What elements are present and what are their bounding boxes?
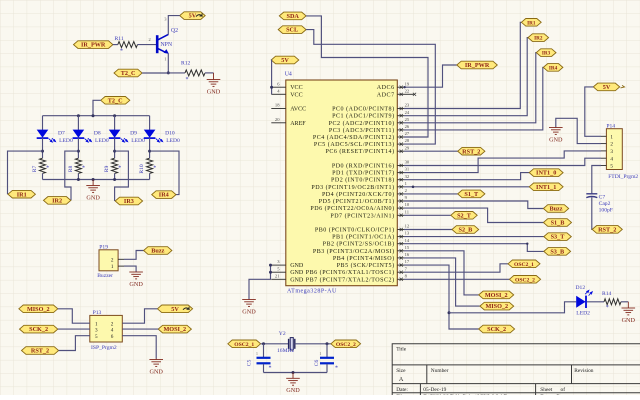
LED D7 bbox=[37, 130, 56, 143]
wire PC2 to IR3 bbox=[404, 53, 536, 123]
svg-text:INT1_1: INT1_1 bbox=[536, 184, 556, 191]
svg-text:R10: R10 bbox=[139, 164, 145, 174]
svg-text:OSC2_1: OSC2_1 bbox=[514, 262, 534, 268]
wire T2_C drop to rail bbox=[93, 100, 101, 115]
svg-text:2: 2 bbox=[610, 142, 613, 148]
svg-text:Size: Size bbox=[396, 368, 406, 374]
svg-text:AVCC: AVCC bbox=[290, 107, 306, 113]
junction S3_B corner bbox=[526, 243, 528, 245]
junction gnd bus 2 bbox=[269, 271, 272, 274]
wire PC3 to IR4 bbox=[404, 67, 543, 129]
svg-text:LED0: LED0 bbox=[59, 138, 73, 144]
wire C6 top bbox=[326, 344, 328, 357]
junction node D10 bbox=[148, 150, 151, 153]
wire 5V to P13.2 bbox=[122, 309, 157, 323]
pin 29 PC6 bbox=[325, 145, 409, 155]
connector P14 bbox=[606, 129, 622, 170]
svg-text:LED0: LED0 bbox=[166, 138, 180, 144]
junction PD3 node bbox=[412, 186, 415, 189]
svg-text:IR2: IR2 bbox=[52, 198, 62, 205]
svg-text:16: 16 bbox=[405, 252, 410, 257]
junction xtal right node bbox=[326, 342, 329, 345]
wire PC1 to IR2 bbox=[404, 38, 528, 116]
svg-text:RST_2: RST_2 bbox=[31, 348, 49, 355]
port Buzz (right) bbox=[543, 205, 568, 213]
wire LED bottom rail bbox=[43, 179, 150, 181]
svg-text:RST_2: RST_2 bbox=[462, 148, 480, 155]
ground GND at R14 bbox=[622, 302, 636, 315]
port SCL bbox=[278, 26, 306, 34]
svg-text:D10: D10 bbox=[165, 130, 175, 136]
port SCK_2 (right) bbox=[479, 325, 515, 333]
wire PC0 to IR1 bbox=[404, 22, 521, 108]
svg-text:ADC6: ADC6 bbox=[377, 85, 395, 91]
wire GND to P14.2 bbox=[556, 118, 601, 143]
wire SCK to LED D12 bbox=[449, 302, 576, 313]
svg-text:Sheet: Sheet bbox=[540, 387, 552, 393]
pin 9 PD5 bbox=[319, 195, 408, 205]
pin 28 PC5 bbox=[314, 138, 410, 148]
svg-text:GND: GND bbox=[290, 270, 304, 276]
svg-text:Date:: Date: bbox=[396, 387, 408, 393]
junction rail2-R8 bbox=[77, 178, 80, 181]
svg-text:17: 17 bbox=[405, 259, 410, 264]
svg-text:R12: R12 bbox=[181, 61, 191, 67]
port S2_B bbox=[452, 226, 479, 234]
svg-text:3: 3 bbox=[95, 328, 98, 334]
junction VCC node bbox=[270, 86, 273, 89]
wire PB7 to OSC2_2 bbox=[404, 278, 509, 280]
pin 22 ADC7 bbox=[377, 88, 410, 98]
wire Q2 emitter down bbox=[167, 54, 169, 73]
svg-text:4: 4 bbox=[610, 156, 613, 162]
pin 13 PB1 bbox=[332, 231, 410, 241]
svg-text:*: * bbox=[46, 165, 49, 171]
pin 27 PC4 bbox=[313, 131, 410, 141]
wire xtal gnd rail bbox=[264, 372, 328, 374]
wire PD1 to P14.3 bbox=[404, 151, 601, 173]
svg-text:Cap2: Cap2 bbox=[599, 201, 611, 207]
svg-text:P19: P19 bbox=[99, 244, 108, 250]
wire PD4 to S1_T bbox=[404, 193, 458, 195]
svg-text:1: 1 bbox=[610, 134, 613, 140]
svg-text:2: 2 bbox=[149, 37, 151, 42]
svg-text:C5: C5 bbox=[247, 360, 253, 367]
svg-text:25: 25 bbox=[405, 117, 410, 122]
wire PB2 to S3_B bbox=[404, 244, 544, 252]
svg-text:5V: 5V bbox=[171, 306, 179, 313]
port 5V (P13) bbox=[157, 305, 192, 313]
transistor Q2 bbox=[157, 34, 169, 54]
title block text bbox=[396, 347, 594, 400]
pin 11 PD7 bbox=[330, 209, 409, 219]
svg-text:100pF: 100pF bbox=[599, 208, 613, 214]
svg-text:2: 2 bbox=[111, 321, 114, 327]
no-connect stub ADC7 bbox=[404, 93, 414, 95]
pin 32 PD2 bbox=[331, 174, 410, 184]
port S1_B bbox=[543, 219, 571, 227]
wire 5V to P14.1 bbox=[585, 87, 601, 136]
svg-text:1: 1 bbox=[256, 352, 258, 356]
svg-text:D9: D9 bbox=[130, 130, 137, 136]
svg-text:IR_PWR: IR_PWR bbox=[465, 62, 490, 69]
junction rail-D8 bbox=[77, 114, 80, 117]
port MISO_2 (left) bbox=[19, 305, 58, 313]
junction xtal left node bbox=[262, 342, 265, 345]
svg-text:5: 5 bbox=[610, 164, 613, 170]
svg-text:PC1 (ADC1/PCINT9): PC1 (ADC1/PCINT9) bbox=[332, 113, 394, 120]
svg-text:R9: R9 bbox=[104, 166, 110, 173]
ground GND at R12 bbox=[207, 73, 221, 87]
pin 24 PC1 bbox=[332, 110, 410, 120]
pin 6 VCC (left) bbox=[271, 81, 302, 91]
junction rail2-GND bbox=[92, 178, 95, 181]
svg-text:11: 11 bbox=[405, 209, 410, 214]
port Buzz (left) bbox=[144, 247, 172, 255]
svg-text:Number: Number bbox=[431, 368, 449, 374]
svg-text:*: * bbox=[118, 165, 121, 171]
svg-text:OSC2_1: OSC2_1 bbox=[234, 342, 254, 348]
junction rail-D9 bbox=[113, 114, 116, 117]
svg-text:2: 2 bbox=[111, 257, 114, 263]
svg-text:*: * bbox=[153, 165, 156, 171]
svg-text:D8: D8 bbox=[94, 130, 101, 136]
svg-text:GND: GND bbox=[622, 317, 636, 324]
svg-text:*: * bbox=[606, 305, 609, 311]
wire PD3 to INT1_1 bbox=[404, 186, 529, 188]
svg-text:Buzz: Buzz bbox=[151, 248, 164, 255]
svg-text:PD7 (PCINT23/AIN1): PD7 (PCINT23/AIN1) bbox=[330, 212, 394, 219]
ground GND at P13 bbox=[149, 359, 163, 367]
svg-text:ADC7: ADC7 bbox=[377, 92, 395, 98]
port IR2 bbox=[44, 197, 71, 205]
wire D8 anode bbox=[77, 116, 79, 130]
svg-text:AREF: AREF bbox=[290, 121, 306, 127]
svg-text:GND: GND bbox=[149, 368, 163, 375]
wire PD6 to S1_B bbox=[404, 208, 543, 222]
LED D12 bbox=[576, 290, 592, 308]
port 5V (Q2 collector) bbox=[180, 12, 206, 20]
svg-text:NPN: NPN bbox=[161, 42, 173, 48]
svg-text:Buzzer: Buzzer bbox=[97, 273, 113, 279]
svg-text:PD3 (PCINT19/OC2B/INT1): PD3 (PCINT19/OC2B/INT1) bbox=[311, 184, 394, 191]
wire PB6 to OSC2_1 bbox=[404, 264, 508, 272]
svg-text:IR2: IR2 bbox=[534, 36, 543, 42]
wire PD2 to INT1_0 bbox=[404, 173, 529, 180]
svg-text:12: 12 bbox=[405, 224, 410, 229]
pin 15 PB3 bbox=[313, 245, 410, 255]
pin 14 PB2 bbox=[323, 238, 410, 248]
svg-text:S3_B: S3_B bbox=[550, 249, 564, 256]
svg-text:13: 13 bbox=[405, 231, 410, 236]
junction gnd bus 1 bbox=[269, 264, 272, 267]
junction node D8 bbox=[77, 150, 80, 153]
junction rail2-R9 bbox=[113, 178, 116, 181]
port S1_T bbox=[458, 190, 485, 198]
junction rail-T2C bbox=[92, 114, 95, 117]
ground GND LED array bbox=[86, 180, 100, 193]
svg-text:SDA: SDA bbox=[287, 13, 300, 20]
svg-text:PD4 (PCINT20/XCK/T0): PD4 (PCINT20/XCK/T0) bbox=[322, 191, 395, 198]
svg-text:29: 29 bbox=[405, 145, 410, 150]
pin 10 PD6 bbox=[310, 202, 410, 212]
junction pin19 start bbox=[403, 86, 405, 88]
svg-text:4: 4 bbox=[111, 328, 114, 334]
svg-text:*: * bbox=[186, 77, 189, 83]
junction SCK LED tap bbox=[448, 311, 451, 314]
svg-text:PB0 (PCINT0/CLKO/ICP1): PB0 (PCINT0/CLKO/ICP1) bbox=[315, 227, 395, 234]
wire IR_PWR to R11 bbox=[113, 44, 118, 46]
port INT1_0 bbox=[529, 169, 563, 177]
svg-text:27: 27 bbox=[405, 131, 410, 136]
svg-text:PB1 (PCINT1/OC1A): PB1 (PCINT1/OC1A) bbox=[332, 234, 394, 241]
resistor R11 bbox=[118, 42, 138, 48]
pin 31 PD1 bbox=[332, 167, 410, 177]
wire P19 pin2 to Buzz bbox=[124, 251, 144, 260]
port S3_B bbox=[544, 248, 571, 256]
port IR4 bbox=[152, 191, 176, 199]
svg-text:5V: 5V bbox=[603, 84, 611, 91]
svg-text:D12: D12 bbox=[576, 285, 586, 291]
port RST_2 (PC6) bbox=[458, 147, 485, 155]
svg-text:SCK_2: SCK_2 bbox=[29, 326, 48, 333]
pin 2 PD4 bbox=[322, 188, 408, 198]
svg-text:S2_B: S2_B bbox=[459, 227, 473, 234]
svg-text:3: 3 bbox=[610, 149, 613, 155]
svg-text:22: 22 bbox=[405, 88, 410, 93]
wire PD0 to P14.4 bbox=[404, 158, 601, 165]
svg-text:*: * bbox=[82, 165, 85, 171]
wire LED top rail bbox=[43, 115, 150, 117]
junction node D9 bbox=[113, 150, 116, 153]
svg-text:GND: GND bbox=[549, 136, 563, 143]
svg-text:SCL: SCL bbox=[286, 27, 298, 34]
wire D9 cathode bbox=[114, 138, 116, 158]
resistor R7 bbox=[40, 158, 46, 173]
port MISO_2 (right) bbox=[480, 302, 514, 310]
wire D10 cathode bbox=[149, 138, 151, 158]
svg-text:S2_T: S2_T bbox=[457, 212, 472, 219]
svg-text:GND: GND bbox=[290, 263, 304, 269]
wire SDA to PC4 bbox=[306, 16, 428, 137]
port IR1 bbox=[8, 190, 35, 198]
svg-text:28: 28 bbox=[405, 138, 410, 143]
svg-text:1: 1 bbox=[111, 264, 114, 270]
ground GND near P14 bbox=[549, 127, 563, 134]
wire R7 bottom bbox=[42, 173, 44, 179]
wire R11 to Q2 base bbox=[138, 44, 157, 46]
crystal Y2 bbox=[289, 338, 295, 350]
no-ERC marker on 5V P13 bbox=[183, 307, 189, 310]
svg-text:PC3 (ADC3/PCINT11): PC3 (ADC3/PCINT11) bbox=[329, 127, 395, 134]
wire PB0 to S2_B bbox=[404, 229, 452, 231]
port MOSI_2 (left) bbox=[158, 325, 191, 333]
svg-text:24: 24 bbox=[405, 110, 410, 115]
svg-text:*: * bbox=[269, 366, 272, 372]
port IR3 bbox=[115, 197, 142, 205]
svg-text:P13: P13 bbox=[93, 310, 102, 316]
svg-text:PB3 (PCINT3/OC2A/MOSI): PB3 (PCINT3/OC2A/MOSI) bbox=[313, 248, 395, 255]
svg-text:LED0: LED0 bbox=[95, 138, 109, 144]
pin 4 VCC (left) bbox=[271, 88, 302, 98]
svg-text:*: * bbox=[335, 366, 338, 372]
pin 17 PB5 bbox=[337, 259, 410, 269]
svg-text:of: of bbox=[561, 386, 566, 393]
svg-text:1: 1 bbox=[320, 352, 322, 356]
svg-text:Q2: Q2 bbox=[171, 28, 178, 34]
svg-text:MOSI_2: MOSI_2 bbox=[485, 292, 508, 299]
port IR3 (top) bbox=[536, 49, 556, 57]
wire 5V to VCC pins bbox=[270, 60, 272, 94]
svg-text:T2_C: T2_C bbox=[121, 70, 136, 77]
svg-text:PD6 (PCINT22/OC0A/AIN0): PD6 (PCINT22/OC0A/AIN0) bbox=[310, 205, 394, 212]
svg-text:OSC2_2: OSC2_2 bbox=[336, 342, 356, 348]
svg-text:MISO_2: MISO_2 bbox=[485, 303, 508, 310]
junction xtal gnd node bbox=[292, 371, 295, 374]
wire R14 to GND bbox=[621, 301, 628, 303]
pin 19 ADC6 bbox=[377, 81, 410, 91]
port IR4 (top) bbox=[543, 64, 563, 72]
svg-text:PD5 (PCINT21/OC0B/T1): PD5 (PCINT21/OC0B/T1) bbox=[319, 198, 395, 205]
port MOSI_2 (right) bbox=[479, 291, 514, 299]
wire PD5 to Buzz bbox=[404, 201, 543, 209]
wire C7 to RST_2 bbox=[591, 197, 593, 229]
connector P13 bbox=[90, 315, 123, 342]
port SCK_2 (left) bbox=[20, 325, 58, 333]
pin 5 GND (left) bbox=[271, 266, 304, 276]
svg-text:PC2 (ADC2/PCINT10): PC2 (ADC2/PCINT10) bbox=[329, 120, 395, 127]
pin 23 PC0 bbox=[332, 103, 410, 113]
wire R9 bottom bbox=[114, 173, 116, 179]
wire D8 cathode bbox=[77, 138, 79, 158]
ground GND at U4 bbox=[242, 299, 256, 306]
svg-text:IR1: IR1 bbox=[17, 191, 27, 198]
wire C5 bottom bbox=[263, 364, 265, 373]
wire PC6 to RST_2 bbox=[404, 150, 458, 152]
pin 25 PC2 bbox=[329, 117, 410, 127]
pin 7 PB6 bbox=[306, 266, 408, 276]
ground GND at P19 bbox=[129, 272, 143, 279]
pin 16 PB4 bbox=[333, 252, 410, 262]
wire D7 anode bbox=[42, 116, 44, 130]
svg-text:Revision: Revision bbox=[574, 368, 593, 374]
wire Y2 to OSC2_2 bbox=[295, 343, 331, 345]
port T2_C (upper) bbox=[114, 69, 142, 77]
svg-text:ISP_Prgm2: ISP_Prgm2 bbox=[91, 345, 117, 351]
port INT1_1 bbox=[529, 183, 563, 191]
pin 21 GND (left) bbox=[271, 273, 304, 283]
svg-text:VCC: VCC bbox=[290, 92, 302, 98]
no-ERC marker on 5V port bbox=[196, 14, 202, 17]
port S2_T bbox=[451, 212, 477, 220]
pin 12 PB0 bbox=[315, 224, 410, 234]
svg-text:16MHz: 16MHz bbox=[277, 348, 295, 354]
resistor R12 bbox=[185, 70, 205, 76]
svg-text:31: 31 bbox=[405, 167, 410, 172]
wire Q2 collector to 5V bbox=[168, 16, 179, 35]
svg-text:T2_C: T2_C bbox=[108, 97, 123, 104]
title block bbox=[392, 344, 640, 395]
svg-text:P14: P14 bbox=[606, 123, 615, 129]
svg-text:PD1 (TXD/PCINT17): PD1 (TXD/PCINT17) bbox=[332, 170, 394, 177]
svg-text:20: 20 bbox=[275, 117, 280, 122]
pin stubs P14 bbox=[601, 136, 606, 165]
wire PB3 to MOSI_2 bbox=[404, 251, 479, 295]
wire PB5 to SCK_2 bbox=[404, 265, 479, 329]
wire node to R12 bbox=[168, 72, 185, 74]
resistor R9 bbox=[112, 158, 118, 173]
wire PD7 to S2_T bbox=[404, 214, 451, 216]
svg-text:15: 15 bbox=[405, 245, 410, 250]
svg-text:LED2: LED2 bbox=[576, 310, 590, 316]
svg-text:GND: GND bbox=[242, 308, 256, 315]
svg-text:U4: U4 bbox=[285, 72, 292, 78]
svg-text:GND: GND bbox=[286, 387, 300, 394]
wire OSC2_1 to Y2 bbox=[261, 343, 289, 345]
ground GND crystal bbox=[286, 373, 300, 386]
LED D9 bbox=[109, 130, 128, 143]
port OSC2_1 (right) bbox=[508, 260, 540, 268]
port T2_C (LED rail) bbox=[101, 97, 130, 105]
no-ERC marker on 5V P14 bbox=[621, 85, 625, 88]
svg-text:5V: 5V bbox=[281, 57, 289, 64]
svg-text:R11: R11 bbox=[115, 36, 124, 42]
wire IR2 tap bbox=[65, 151, 79, 200]
svg-text:3: 3 bbox=[164, 17, 166, 22]
wire IR1 tap bbox=[8, 151, 43, 194]
svg-text:1: 1 bbox=[95, 321, 98, 327]
svg-text:19: 19 bbox=[405, 81, 410, 86]
svg-text:FTDI_Prgm2: FTDI_Prgm2 bbox=[608, 174, 638, 180]
capacitor C5 bbox=[257, 358, 271, 364]
svg-text:26: 26 bbox=[405, 124, 410, 129]
wire D7 cathode bbox=[42, 138, 44, 158]
port S3_T bbox=[544, 233, 572, 241]
wire PB1 to S3_T bbox=[404, 236, 544, 238]
svg-text:C6: C6 bbox=[314, 360, 320, 367]
svg-text:RST_2: RST_2 bbox=[598, 227, 616, 234]
svg-text:R8: R8 bbox=[68, 166, 74, 173]
capacitor C7 bbox=[586, 194, 597, 198]
wire IR4 tap bbox=[150, 151, 179, 195]
wire SCL to PC5 bbox=[306, 30, 435, 145]
svg-text:ATmega328P-AU: ATmega328P-AU bbox=[287, 288, 337, 294]
port 5V (VCC) bbox=[271, 56, 299, 64]
svg-text:05-Dec-19: 05-Dec-19 bbox=[423, 387, 446, 393]
svg-text:GND: GND bbox=[129, 281, 143, 288]
port SDA bbox=[279, 12, 306, 20]
port IR_PWR (right) bbox=[457, 61, 498, 69]
port OSC2_2 (crystal) bbox=[331, 340, 361, 348]
wire GND bus bbox=[249, 265, 271, 299]
svg-text:5: 5 bbox=[95, 334, 98, 340]
wire MISO_2 to P13.1 bbox=[58, 309, 90, 323]
svg-text:R14: R14 bbox=[602, 291, 612, 297]
wire ADC6 to IR_PWR bbox=[404, 65, 457, 87]
svg-text:32: 32 bbox=[405, 174, 410, 179]
svg-text:INT1_0: INT1_0 bbox=[536, 170, 556, 177]
wire D10 anode bbox=[149, 116, 151, 130]
pin 26 PC3 bbox=[329, 124, 410, 134]
svg-text:MOSI_2: MOSI_2 bbox=[163, 326, 186, 333]
port IR2 (top) bbox=[528, 34, 549, 42]
port IR1 (top) bbox=[521, 19, 541, 27]
wire R12 to GND bbox=[205, 72, 214, 74]
svg-text:14: 14 bbox=[405, 238, 410, 243]
svg-text:S1_B: S1_B bbox=[551, 220, 565, 227]
port OSC2_1 (crystal) bbox=[228, 340, 261, 348]
wire D12 to R14 bbox=[587, 301, 604, 303]
